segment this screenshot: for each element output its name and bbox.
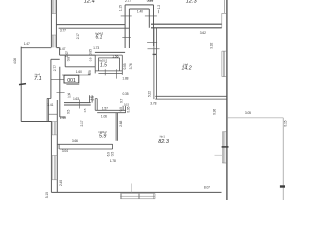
svg-text:3.05: 3.05 xyxy=(245,111,251,115)
room 7.1 walls xyxy=(20,47,22,122)
svg-text:2.40: 2.40 xyxy=(59,180,63,186)
hall left vertical xyxy=(60,67,66,117)
room 1.5 box xyxy=(95,55,98,73)
room 14.2 top wall (dark) xyxy=(151,24,222,28)
dim ticks niche xyxy=(121,15,157,17)
svg-text:0.9: 0.9 xyxy=(119,107,123,112)
svg-text:001: 001 xyxy=(67,78,76,84)
svg-text:7.1: 7.1 xyxy=(34,76,42,82)
svg-text:3.66: 3.66 xyxy=(72,139,78,143)
svg-text:2.77: 2.77 xyxy=(125,0,131,3)
svg-text:1.78: 1.78 xyxy=(110,159,116,163)
svg-text:0.5: 0.5 xyxy=(111,152,115,157)
svg-text:6.9: 6.9 xyxy=(107,152,111,157)
svg-text:1.56: 1.56 xyxy=(112,54,118,58)
wardrobe niche jog xyxy=(95,99,97,111)
right outer wall (dark) xyxy=(226,0,228,200)
door lintel near 5.9 xyxy=(49,113,58,115)
svg-text:82.3: 82.3 xyxy=(158,139,170,145)
svg-text:5.22: 5.22 xyxy=(148,91,152,97)
svg-text:0.7: 0.7 xyxy=(119,98,123,103)
6.1 bottom-right single wall xyxy=(95,51,125,53)
svg-text:3.04: 3.04 xyxy=(62,149,68,153)
7.1 right wall lower jog xyxy=(47,99,51,122)
left wall arrow mark xyxy=(19,84,26,85)
svg-text:0.15: 0.15 xyxy=(284,120,288,126)
svg-text:12.3: 12.3 xyxy=(186,0,198,4)
svg-text:1.88: 1.88 xyxy=(122,76,128,80)
tick right of niche xyxy=(147,42,157,44)
svg-text:0.5: 0.5 xyxy=(66,109,70,114)
niche right wall xyxy=(149,5,153,28)
room 14.2 left wall xyxy=(154,28,157,99)
svg-text:1.5: 1.5 xyxy=(100,62,107,68)
connector to 001 xyxy=(51,79,64,81)
svg-text:1.57: 1.57 xyxy=(102,107,108,111)
svg-text:12.4: 12.4 xyxy=(84,0,95,4)
svg-text:0.9: 0.9 xyxy=(88,70,92,75)
svg-text:6.1: 6.1 xyxy=(96,34,103,40)
room 6.1 top wall xyxy=(56,25,129,29)
svg-text:1.47: 1.47 xyxy=(59,47,65,51)
svg-text:3.78: 3.78 xyxy=(150,102,156,106)
niche left wall (room 6.1 right wall) xyxy=(125,5,129,48)
svg-text:5.10: 5.10 xyxy=(45,192,49,198)
staircase step below window xyxy=(56,48,59,56)
5.9 bottom wall xyxy=(57,143,112,145)
bottom wall xyxy=(51,191,221,193)
left outer wall lower column xyxy=(51,100,57,192)
niche top walls xyxy=(125,5,153,9)
svg-text:1.60: 1.60 xyxy=(76,70,82,74)
bottom window box xyxy=(120,194,155,199)
svg-text:2.17: 2.17 xyxy=(80,120,84,126)
hall upper pocket rectangle xyxy=(60,55,96,67)
svg-text:1.41: 1.41 xyxy=(47,103,53,107)
svg-text:0.35: 0.35 xyxy=(123,92,129,96)
svg-text:1.2: 1.2 xyxy=(157,5,161,10)
svg-text:0.95: 0.95 xyxy=(123,63,127,69)
svg-text:0.5: 0.5 xyxy=(83,108,87,112)
svg-text:1.40: 1.40 xyxy=(60,116,66,120)
left outer wall upper column faces xyxy=(51,0,56,47)
svg-text:5.9: 5.9 xyxy=(99,134,106,140)
svg-text:1.04: 1.04 xyxy=(148,0,154,2)
small arrow right of niche xyxy=(158,10,160,13)
window hatch (lower-left #1) xyxy=(51,122,57,135)
svg-text:1.73: 1.73 xyxy=(93,46,99,50)
svg-text:4.08: 4.08 xyxy=(13,58,17,64)
window hatch top-left (top) xyxy=(51,0,56,14)
svg-text:2.77: 2.77 xyxy=(53,65,57,71)
tick on 14.2 left wall xyxy=(148,48,160,50)
svg-text:1.06: 1.06 xyxy=(101,115,107,119)
hallway 5.9 top wall xyxy=(64,103,91,105)
svg-text:0.36: 0.36 xyxy=(212,109,216,115)
svg-text:2.68: 2.68 xyxy=(119,121,123,127)
svg-text:0.15: 0.15 xyxy=(124,103,130,107)
equal-mark near 1.60 dim xyxy=(88,73,90,74)
svg-text:1.15: 1.15 xyxy=(118,5,122,11)
7.1 right wall upper xyxy=(50,59,52,98)
svg-text:3.76: 3.76 xyxy=(129,63,133,69)
door jambs room 1.5 xyxy=(105,69,116,78)
window living room right wall (balcony door) xyxy=(222,132,226,163)
line under 001 box xyxy=(66,84,79,86)
5.9 right wall xyxy=(116,113,118,141)
svg-text:№-1: №-1 xyxy=(160,134,166,138)
svg-text:3.92: 3.92 xyxy=(209,43,213,49)
svg-text:3.62: 3.62 xyxy=(200,31,206,35)
svg-text:1.07: 1.07 xyxy=(65,51,69,57)
niche right wall stub below xyxy=(153,28,155,46)
svg-text:1.47: 1.47 xyxy=(24,42,30,46)
tick on 6.1 right wall xyxy=(122,36,131,38)
svg-text:14.2: 14.2 xyxy=(182,66,192,72)
dark sill tick on right wall xyxy=(222,146,229,148)
tick near 1.80 xyxy=(57,91,65,93)
svg-text:3.77: 3.77 xyxy=(60,29,66,33)
room 14.2 bottom wall xyxy=(155,96,227,99)
svg-text:0.9: 0.9 xyxy=(89,57,93,61)
svg-text:2.17: 2.17 xyxy=(76,33,80,39)
window room 14.2 right wall xyxy=(222,51,226,77)
door tick on 5.9 top wall xyxy=(79,100,81,109)
svg-text:1.0: 1.0 xyxy=(89,96,93,100)
window hatch (lower-left #2) xyxy=(51,156,57,180)
svg-text:0.85: 0.85 xyxy=(89,49,93,55)
001 box xyxy=(64,75,79,83)
svg-text:1.40: 1.40 xyxy=(137,9,143,13)
svg-text:0.95: 0.95 xyxy=(126,106,130,112)
top-right inner line + corner niche xyxy=(223,0,225,13)
svg-text:1.63: 1.63 xyxy=(73,97,79,101)
dim line 1.60 xyxy=(62,74,91,76)
window hatch top-left (second) xyxy=(51,35,56,47)
balcony dimension line + outline xyxy=(227,117,284,119)
bath door jamb xyxy=(90,95,93,102)
svg-text:8.07: 8.07 xyxy=(204,185,210,189)
